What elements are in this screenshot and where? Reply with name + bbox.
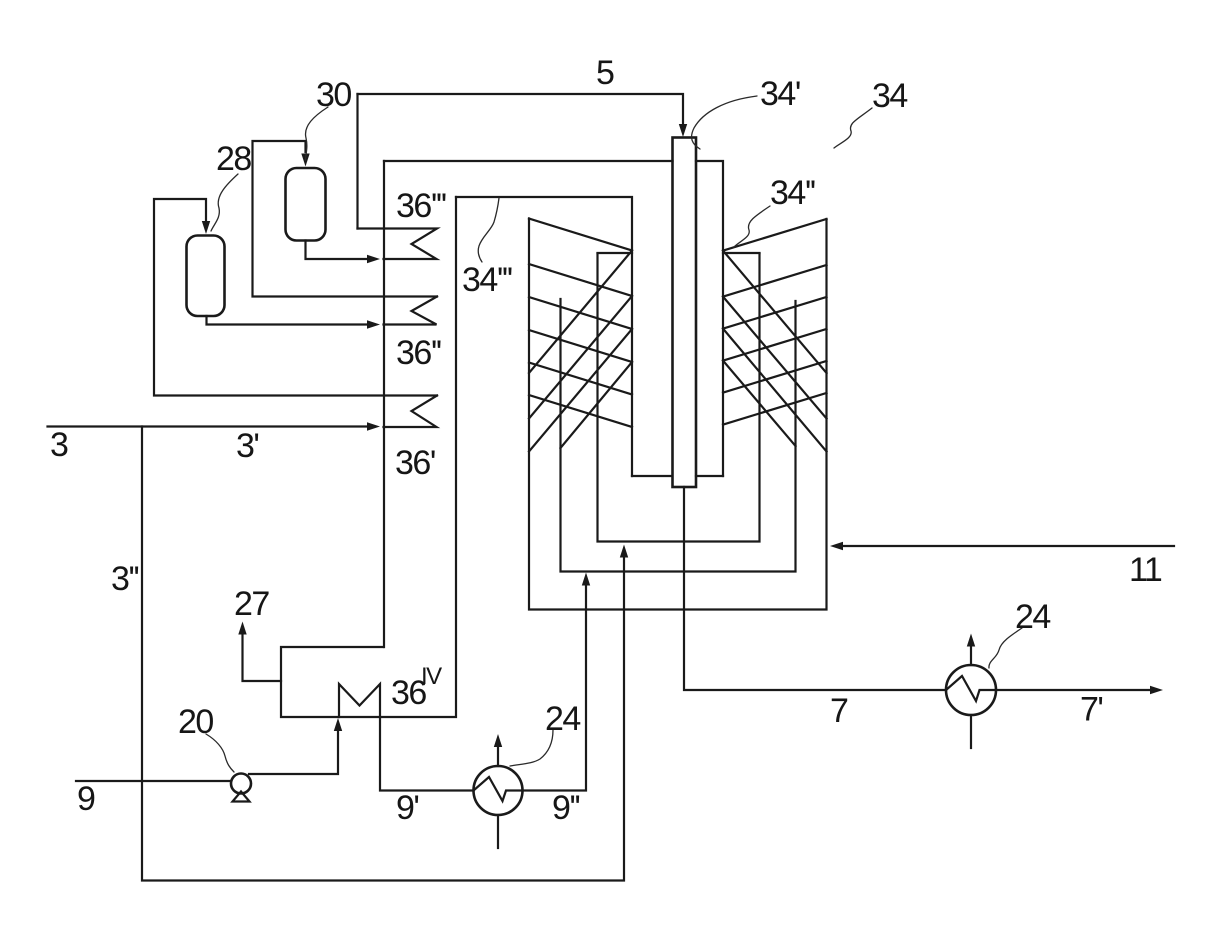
svg-text:34': 34': [760, 75, 800, 113]
svg-text:27: 27: [234, 585, 269, 623]
svg-text:24: 24: [1015, 598, 1050, 636]
svg-text:34'': 34'': [770, 174, 815, 212]
svg-text:7: 7: [830, 692, 848, 730]
svg-text:11: 11: [1129, 551, 1162, 589]
svg-text:9': 9': [396, 789, 418, 827]
svg-text:9: 9: [77, 780, 95, 818]
svg-text:3'': 3'': [111, 560, 138, 598]
svg-text:36''': 36''': [396, 187, 446, 225]
svg-text:30: 30: [316, 76, 351, 114]
svg-text:36': 36': [395, 444, 435, 482]
svg-text:36'': 36'': [396, 334, 441, 372]
svg-text:3: 3: [50, 426, 68, 464]
svg-text:28: 28: [216, 140, 251, 178]
svg-text:9'': 9'': [552, 789, 579, 827]
svg-text:34''': 34''': [462, 261, 512, 299]
svg-text:20: 20: [178, 703, 213, 741]
svg-text:7': 7': [1080, 691, 1102, 729]
svg-text:IV: IV: [421, 663, 442, 690]
svg-text:3': 3': [236, 427, 258, 465]
svg-text:5: 5: [596, 54, 614, 92]
svg-text:34: 34: [872, 77, 907, 115]
svg-text:24: 24: [545, 700, 580, 738]
